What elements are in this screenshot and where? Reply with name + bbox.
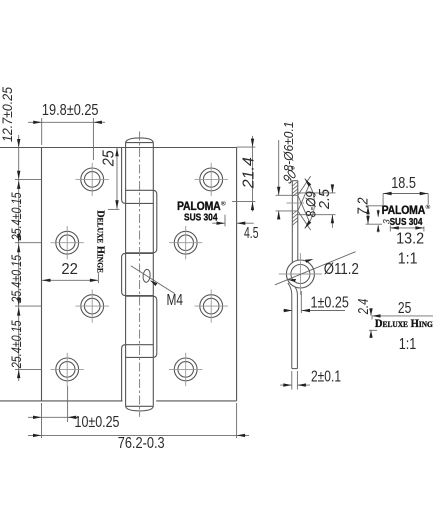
dimension chain 25.4±0.15 left (8, 135, 42, 381)
dimension 22 (42, 261, 98, 283)
svg-text:7.2: 7.2 (355, 197, 372, 215)
knuckle segment 4 right edge (126, 296, 157, 357)
dia11.2 arrowhead upper (305, 259, 314, 263)
dimension 10±0.25 (28, 386, 120, 438)
section hatch upper band (292, 182, 298, 197)
detail 2 dimension 25 (372, 300, 433, 320)
countersink cone cross line 2 (298, 184, 310, 211)
screw hole B2 outer (174, 231, 197, 254)
dimension 21.4 (rotated) (232, 136, 258, 212)
leaf strip right edge (297, 181, 299, 261)
screw hole B4 outer (174, 358, 197, 381)
svg-text:8-Ø6±0.1: 8-Ø6±0.1 (281, 122, 296, 172)
screw hole A1 inner (84, 172, 100, 188)
M4 set screw slot (142, 269, 150, 283)
svg-text:2±0.1: 2±0.1 (311, 368, 341, 385)
knuckle segment 3 left edge (122, 253, 154, 295)
countersink dia9 top line (298, 192, 336, 194)
8-dia6 top arrowhead (277, 187, 280, 196)
screw hole A1 outer (81, 168, 104, 191)
MAIN VIEW (0, 87, 259, 452)
countersink cone lower line (298, 211, 311, 230)
svg-text:25.4±0.15: 25.4±0.15 (8, 320, 24, 369)
countersink cone cross line 1 (298, 195, 310, 222)
90 degree arc bottom arrowhead (305, 220, 312, 229)
svg-text:21.4: 21.4 (241, 157, 258, 189)
screw hole A3 crosshair (76, 289, 109, 322)
svg-text:SUS 304: SUS 304 (390, 216, 423, 228)
screw hole A1 crosshair (76, 163, 109, 196)
dimension 8-dia9 line (331, 186, 333, 228)
svg-text:1:1: 1:1 (399, 336, 417, 353)
svg-text:4.5: 4.5 (244, 225, 259, 242)
screw hole A4 inner (59, 362, 75, 378)
svg-text:1±0.25: 1±0.25 (311, 294, 349, 311)
svg-text:76.2-0.3: 76.2-0.3 (118, 435, 165, 452)
countersink hole bottom line (276, 210, 298, 212)
screw hole A4 crosshair (51, 353, 84, 386)
hinge plate bottom edge (0, 400, 237, 402)
svg-text:25.4±0.15: 25.4±0.15 (8, 192, 24, 241)
hole centerline (287, 202, 305, 204)
M4 leader arrowhead (150, 280, 158, 286)
90 degree dimension arc (305, 179, 315, 229)
svg-text:1:1: 1:1 (398, 251, 418, 268)
screw hole A2 crosshair (51, 226, 84, 259)
screw hole B3 crosshair (195, 289, 228, 322)
svg-text:25: 25 (398, 300, 411, 317)
detail 1 dimension 7.2 (rotated) (355, 197, 382, 224)
dimension 1±0.25 (283, 291, 349, 313)
svg-text:19.8±0.25: 19.8±0.25 (42, 102, 99, 119)
svg-text:18.5: 18.5 (391, 175, 416, 192)
dimension 19.8±0.25 (28, 102, 105, 160)
svg-text:Ø11.2: Ø11.2 (324, 261, 359, 278)
dimension 4.5 (212, 215, 258, 242)
detail 1 dimension 18.5 (383, 175, 428, 205)
8-dia9 bottom arrowhead (331, 215, 334, 224)
screw hole B2 crosshair (169, 226, 202, 259)
svg-text:12.7±0.25: 12.7±0.25 (0, 87, 15, 142)
knuckle pin centerline (139, 132, 141, 417)
8-dia6 bottom arrowhead (277, 211, 280, 220)
barrel horizontal centerline (279, 273, 322, 275)
DETAIL VIEWS (355, 175, 433, 353)
screw hole B3 outer (200, 295, 223, 318)
screw hole A3 inner (84, 298, 100, 314)
dia11.2 arrowhead lower (288, 279, 297, 282)
knuckle pin top dome (126, 138, 154, 143)
dimension 12.7±0.25 (rotated) (0, 87, 15, 142)
svg-text:13.2: 13.2 (396, 231, 424, 248)
screw hole B2 inner (178, 235, 194, 251)
svg-text:®: ® (221, 200, 226, 208)
screw hole B3 inner (203, 298, 219, 314)
svg-text:M4: M4 (167, 292, 184, 309)
detail 1 dimension 13.2 (390, 226, 424, 248)
leaf strip lower left edge (288, 283, 292, 369)
hinge plate top edge (0, 147, 237, 149)
leaf strip top end (292, 180, 298, 182)
countersink dia9 bottom line (298, 214, 336, 216)
screw hole B4 inner (178, 362, 194, 378)
M4 leader line (131, 266, 175, 294)
leaf strip lower right edge (295, 288, 297, 369)
svg-text:2.5: 2.5 (316, 188, 333, 210)
knuckle barrel left edge (125, 143, 127, 407)
dimension 76.2-0.3 (28, 403, 249, 452)
hinge plate right edge (236, 148, 238, 401)
screw hole B1 outer (200, 168, 223, 191)
screw hole A2 outer (56, 231, 79, 254)
barrel inner circle (291, 265, 310, 284)
svg-text:2.4: 2.4 (355, 299, 372, 315)
barrel outer circle (286, 260, 314, 288)
dimension 2±0.1 (280, 368, 341, 389)
screw hole A4 outer (56, 358, 79, 381)
svg-text:SUS 304: SUS 304 (184, 211, 218, 223)
detail 1 dimension 3 (rotated) (377, 210, 392, 233)
countersink cone upper line (298, 176, 311, 195)
leaf strip left edge (291, 181, 293, 263)
barrel vertical centerline (299, 253, 301, 295)
svg-text:10±0.25: 10±0.25 (75, 414, 120, 431)
knuckle segment 5 left leaf edge (122, 345, 154, 401)
dia11.2 leader line (275, 252, 356, 285)
screw hole B1 inner (203, 172, 219, 188)
screw hole A2 inner (59, 235, 75, 251)
screw hole B1 crosshair (195, 163, 228, 196)
knuckle segment 2 right edge (126, 190, 157, 253)
svg-text:25.4±0.15: 25.4±0.15 (8, 255, 24, 304)
svg-text:22: 22 (61, 261, 78, 278)
section hatch lower band (292, 210, 298, 225)
screw hole B4 crosshair (169, 353, 202, 386)
svg-text:®: ® (426, 203, 431, 211)
hinge plate left edge (41, 148, 43, 401)
knuckle pin bottom dome (126, 406, 154, 411)
detail 2 dimension 2.4 (rotated) (355, 299, 377, 338)
knuckle barrel right edge (152, 143, 154, 407)
knuckle segment 1 left leaf edge (122, 148, 154, 204)
svg-text:Deluxe Hinge: Deluxe Hinge (375, 318, 433, 330)
SIDE VIEW (275, 122, 359, 390)
8-dia9 top arrowhead (331, 184, 334, 193)
90 degree arc top arrowhead (305, 178, 312, 187)
dimension 25 knuckle (rotated) (101, 148, 120, 210)
screw hole A3 outer (81, 295, 104, 318)
svg-text:3: 3 (381, 219, 391, 224)
countersink hole top line (276, 194, 298, 196)
svg-text:25: 25 (101, 150, 118, 167)
svg-text:Deluxe Hinge: Deluxe Hinge (94, 210, 106, 273)
leaf strip bottom end (292, 368, 298, 370)
dimension 8-dia6 leader line (278, 140, 280, 220)
